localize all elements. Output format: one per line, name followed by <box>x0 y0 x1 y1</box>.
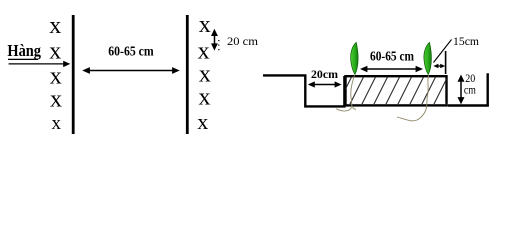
svg-text:x: x <box>51 113 61 134</box>
svg-text:x: x <box>199 84 211 110</box>
svg-text:x: x <box>49 13 61 39</box>
svg-text:x: x <box>50 87 62 113</box>
svg-text:x: x <box>197 109 208 134</box>
svg-text:cm: cm <box>464 83 477 97</box>
svg-text:x: x <box>199 12 211 38</box>
svg-text:x: x <box>49 38 61 64</box>
svg-text:20 cm: 20 cm <box>227 34 259 48</box>
svg-text:Hàng: Hàng <box>7 41 41 60</box>
svg-text:x: x <box>50 64 62 90</box>
svg-text:60-65 cm: 60-65 cm <box>370 50 414 65</box>
svg-text:15cm: 15cm <box>453 34 480 48</box>
svg-text:20cm: 20cm <box>311 67 338 81</box>
svg-text:60-65 cm: 60-65 cm <box>108 45 154 60</box>
